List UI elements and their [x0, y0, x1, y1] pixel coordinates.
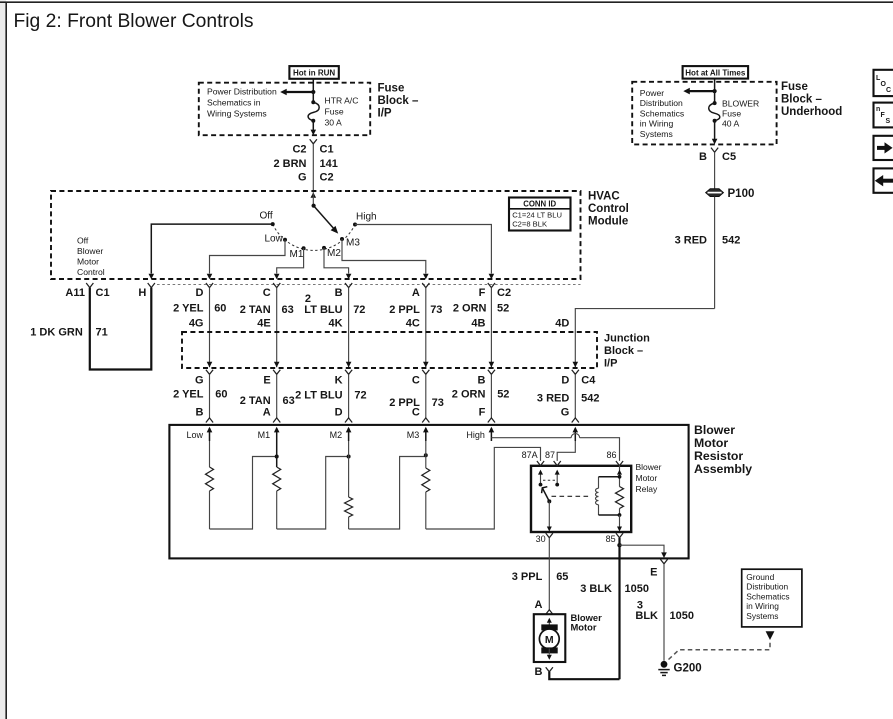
- wire 2 YEL circuit 60 (upper): [209, 288, 211, 368]
- svg-text:M3: M3: [407, 430, 420, 440]
- label 3 PPL 65: [512, 571, 569, 583]
- svg-text:C: C: [263, 287, 271, 299]
- svg-text:2 LT BLU: 2 LT BLU: [295, 390, 343, 402]
- svg-text:A: A: [412, 287, 420, 299]
- wire from module border to switch pivot: [312, 192, 314, 206]
- blower motor box: [534, 614, 566, 662]
- svg-text:3 PPL: 3 PPL: [512, 571, 543, 583]
- svg-text:I/P: I/P: [378, 108, 392, 120]
- svg-text:72: 72: [353, 304, 365, 316]
- svg-text:Hot in RUN: Hot in RUN: [293, 68, 335, 77]
- label BLOWER Fuse 40 A: [722, 98, 759, 128]
- svg-text:65: 65: [556, 571, 568, 583]
- svg-text:C: C: [412, 407, 420, 419]
- svg-text:Fuse: Fuse: [722, 109, 741, 119]
- svg-text:C5: C5: [722, 151, 736, 163]
- svg-text:Relay: Relay: [636, 484, 658, 494]
- wire 2 YEL circuit 60 (lower): [209, 374, 211, 418]
- svg-text:2 ORN: 2 ORN: [452, 389, 486, 401]
- pin F connector C2: [479, 283, 511, 299]
- wire from motor B to 85 wire: [549, 672, 619, 679]
- junction block I/P dashed box: [182, 332, 597, 368]
- pin G below junction block: [195, 370, 213, 387]
- svg-text:Ground: Ground: [746, 572, 774, 582]
- node: switch pivot: [312, 204, 316, 208]
- svg-text:P100: P100: [728, 188, 755, 200]
- label Hot at All Times: [683, 66, 749, 79]
- svg-text:Low: Low: [265, 234, 284, 245]
- svg-text:Block –: Block –: [378, 95, 420, 107]
- relay contact link (dashed): [543, 479, 555, 481]
- svg-text:C1: C1: [320, 143, 334, 155]
- wire 3 PPL circuit 65 from relay 30 to blower motor A: [548, 538, 550, 610]
- relay coil shunt resistor: [616, 466, 624, 515]
- relay pin 85: [606, 533, 623, 544]
- label 3 RED 542 (upper): [675, 234, 741, 246]
- relay coil L1: [596, 477, 620, 515]
- pin F at resistor assembly: [479, 407, 495, 423]
- label 3 BLK 1050 (right): [635, 600, 694, 622]
- svg-text:A: A: [535, 599, 543, 611]
- svg-text:C: C: [886, 87, 891, 94]
- label 4E: [257, 318, 270, 330]
- svg-text:Distribution: Distribution: [640, 98, 683, 108]
- blower motor resistor assembly box: [169, 425, 688, 559]
- node relay common 30: [547, 499, 551, 503]
- wire from Hot in RUN to fuse: [312, 79, 314, 92]
- wire 3 BLK circuit 1050 from pin E to ground G200: [663, 564, 665, 661]
- arrow relay coil 86 input: [617, 470, 622, 477]
- connector C2/C1: [292, 139, 333, 155]
- svg-text:Schematics: Schematics: [640, 108, 684, 118]
- pin D below junction block connector C4: [561, 370, 596, 387]
- svg-text:B: B: [196, 407, 204, 419]
- arrow TAN wire at junction block exit: [274, 362, 280, 368]
- label 3 RED 542 (lower): [537, 393, 600, 405]
- svg-text:C2: C2: [320, 172, 334, 184]
- fuse F1 HTR A/C 30 A: [308, 92, 319, 131]
- svg-text:Control: Control: [588, 203, 629, 215]
- svg-text:B: B: [477, 374, 485, 386]
- label 1 DK GRN 71: [30, 326, 108, 338]
- arrow relay contact 87A: [538, 470, 543, 485]
- wire: M1 chain to M2 node: [277, 457, 349, 530]
- svg-text:BLK: BLK: [635, 610, 658, 622]
- svg-text:2 ORN: 2 ORN: [453, 303, 487, 315]
- connector B/C5: [699, 148, 736, 163]
- svg-text:Motor: Motor: [694, 436, 728, 450]
- svg-text:Module: Module: [588, 215, 628, 227]
- arrow Low input inside assembly: [186, 427, 212, 441]
- svg-text:2 YEL: 2 YEL: [173, 389, 204, 401]
- label 2 TAN 63 (upper): [240, 304, 294, 316]
- relay pin 30: [536, 533, 553, 544]
- pin D at resistor assembly: [335, 407, 353, 423]
- node relay coil bottom (85): [618, 513, 622, 517]
- svg-text:K: K: [335, 374, 343, 386]
- label 2 LT BLU 72 (upper): [304, 293, 365, 316]
- button forward arrow: [874, 136, 893, 160]
- wire 2 PPL circuit 73 (upper): [425, 288, 427, 368]
- svg-text:73: 73: [430, 304, 442, 316]
- label 2 YEL 60 (upper): [173, 303, 226, 315]
- arrow M1 input inside assembly: [258, 427, 280, 441]
- title: Fig 2: Front Blower Controls: [14, 11, 254, 32]
- svg-text:C2=8 BLK: C2=8 BLK: [512, 220, 547, 229]
- label G200: [674, 663, 702, 675]
- svg-text:63: 63: [283, 395, 295, 407]
- svg-text:LT BLU: LT BLU: [304, 304, 342, 316]
- switch contact Low: [265, 234, 288, 245]
- switch contact arc (dashed): [273, 224, 355, 250]
- pin B at resistor assembly: [196, 407, 214, 423]
- svg-text:Low: Low: [186, 430, 203, 440]
- svg-text:Power Distribution: Power Distribution: [207, 87, 277, 97]
- svg-text:4K: 4K: [329, 318, 343, 330]
- fuse block underhood dashed box: [632, 82, 776, 145]
- svg-text:87: 87: [545, 450, 555, 460]
- svg-text:C1=24 LT BLU: C1=24 LT BLU: [512, 210, 562, 219]
- label Fuse Block - Underhood: [781, 81, 842, 118]
- node: blower fuse feed junction: [713, 89, 717, 93]
- grommet P100: [706, 189, 724, 197]
- wire: Low contact to pin D: [207, 240, 285, 279]
- svg-text:I/P: I/P: [604, 357, 617, 369]
- switch contact Off: [260, 211, 275, 227]
- svg-text:D: D: [196, 287, 204, 299]
- wire: M2 chain to M3 node: [349, 457, 426, 530]
- label 2 TAN 63 (lower): [240, 395, 295, 407]
- svg-text:Blower: Blower: [694, 423, 735, 437]
- svg-text:30: 30: [536, 534, 546, 544]
- wire 3 RED circuit 542 from P100 to junction block: [575, 197, 714, 368]
- wire 2 ORN circuit 52 (lower): [490, 374, 492, 418]
- svg-text:High: High: [466, 430, 485, 440]
- wire: Off contact to pin H: [149, 224, 273, 279]
- arrow: fuse output at box edge: [311, 130, 317, 136]
- svg-text:Assembly: Assembly: [694, 462, 752, 476]
- note Ground Distribution Schematics in Wiring Systems: [746, 572, 789, 621]
- label 2 ORN 52 (upper): [453, 303, 509, 315]
- arrow from ground distribution reference: [766, 631, 775, 640]
- arrow M2 input inside assembly: [330, 427, 352, 441]
- node M3 tap: [424, 453, 428, 457]
- svg-text:4B: 4B: [471, 318, 485, 330]
- svg-text:86: 86: [606, 450, 616, 460]
- label 4C: [406, 318, 420, 330]
- switch contact M3: [340, 237, 360, 249]
- svg-text:1 DK GRN: 1 DK GRN: [30, 326, 83, 338]
- relay pin 87A: [522, 450, 544, 466]
- svg-text:3 BLK: 3 BLK: [580, 583, 612, 595]
- wire: M1 contact to pin C: [274, 248, 304, 279]
- wire 3 BLK circuit 1050 from relay 85 (to motor B): [618, 538, 620, 680]
- node M2 tap: [347, 455, 351, 459]
- svg-text:Underhood: Underhood: [781, 106, 842, 118]
- svg-text:C1: C1: [96, 287, 110, 299]
- arrow relay contact 87: [555, 470, 560, 485]
- wire from Hot at All Times to fuse: [714, 79, 716, 92]
- svg-text:G: G: [195, 374, 204, 386]
- arrow into blower motor: [547, 618, 552, 627]
- pin B blower motor: [535, 666, 553, 678]
- label 2 PPL 73 (upper): [389, 304, 442, 316]
- pin C at resistor assembly: [412, 407, 430, 423]
- pin A at resistor assembly: [263, 407, 281, 423]
- svg-text:4E: 4E: [257, 318, 270, 330]
- arrow High input inside assembly: [466, 427, 494, 441]
- label Hot in RUN: [289, 66, 338, 79]
- wire: M3 contact to pin A: [342, 239, 429, 279]
- wire: M2 contact to pin B: [324, 248, 351, 279]
- blower motor M1 symbol: [539, 624, 559, 653]
- wire: low chain to M1 node: [210, 457, 277, 530]
- pin H: [138, 283, 155, 299]
- pin K below junction block: [335, 370, 353, 387]
- label HTR A/C Fuse 30 A: [325, 95, 359, 127]
- svg-text:M2: M2: [327, 248, 341, 259]
- pin E below junction block: [263, 370, 280, 387]
- svg-text:Blower: Blower: [636, 462, 662, 472]
- label Blower Motor Resistor Assembly: [694, 423, 752, 476]
- svg-text:Motor: Motor: [636, 473, 658, 483]
- switch contact M2: [322, 246, 341, 259]
- svg-text:52: 52: [497, 303, 509, 315]
- svg-text:B: B: [699, 151, 707, 163]
- arrow RED wire at junction block exit: [573, 362, 579, 368]
- svg-text:Hot at All Times: Hot at All Times: [685, 68, 746, 77]
- pin D: [196, 283, 214, 299]
- svg-text:73: 73: [432, 397, 444, 409]
- svg-text:52: 52: [497, 389, 509, 401]
- svg-text:Control: Control: [77, 267, 105, 277]
- wire 1 DK GRN circuit 71 loop from A11 to H: [90, 288, 152, 370]
- svg-text:HTR A/C: HTR A/C: [325, 95, 359, 105]
- svg-text:Schematics: Schematics: [746, 591, 789, 601]
- blower motor relay box: [531, 466, 631, 532]
- note Off Blower Motor Control: [77, 236, 105, 278]
- svg-text:A: A: [263, 407, 271, 419]
- svg-text:CONN ID: CONN ID: [523, 200, 556, 209]
- relay actuation link (dashed): [552, 495, 592, 497]
- svg-text:Fig 2: Front Blower Controls: Fig 2: Front Blower Controls: [14, 11, 254, 32]
- pin G of connector C2: [298, 172, 334, 184]
- svg-text:G: G: [561, 407, 570, 419]
- wire 3 RED circuit 542 (lower): [574, 374, 576, 418]
- svg-text:B: B: [535, 666, 543, 678]
- note Power Distribution Schematics in Wiring Systems (I/P): [207, 87, 277, 119]
- svg-text:30 A: 30 A: [325, 117, 342, 127]
- wire: G input to relay 87: [557, 441, 575, 461]
- svg-text:Resistor: Resistor: [694, 449, 743, 463]
- svg-text:F: F: [479, 287, 486, 299]
- wire 2 LT BLU circuit 72 (lower): [348, 374, 350, 418]
- svg-text:Off: Off: [260, 211, 273, 222]
- relay pin 87: [545, 450, 561, 466]
- svg-text:Block –: Block –: [781, 94, 823, 106]
- svg-text:Power: Power: [640, 88, 664, 98]
- svg-text:High: High: [356, 212, 377, 223]
- arrow PPL wire at junction block exit: [423, 362, 429, 368]
- fuse block I/P dashed box: [199, 83, 370, 136]
- wire: M3 chain to relay 87A: [426, 447, 541, 529]
- svg-text:Block –: Block –: [604, 345, 643, 357]
- ground distribution reference box: [742, 569, 802, 627]
- ground G200 symbol: [658, 661, 669, 676]
- wire 2 PPL circuit 73 (lower): [425, 374, 427, 418]
- arrow out of blower motor: [547, 649, 552, 660]
- svg-text:Systems: Systems: [746, 611, 778, 621]
- svg-text:2 PPL: 2 PPL: [389, 304, 420, 316]
- svg-text:M: M: [545, 634, 554, 646]
- button LOC (cut off): [874, 70, 893, 96]
- switch contact M1: [290, 246, 306, 260]
- relay armature: [542, 487, 550, 502]
- wire branch to pin E: [620, 545, 667, 558]
- CONN ID table: [509, 198, 571, 231]
- label 4G: [189, 318, 204, 330]
- resistor R-low: [206, 441, 214, 529]
- resistor R-m2: [345, 441, 353, 529]
- svg-text:Fuse: Fuse: [781, 81, 808, 93]
- node: 85 wire junction to pin E: [617, 543, 621, 547]
- svg-text:2 YEL: 2 YEL: [173, 303, 204, 315]
- svg-text:4D: 4D: [555, 318, 569, 330]
- note Power Distribution Schematics in Wiring Systems (underhood): [640, 88, 684, 139]
- svg-text:Blower: Blower: [77, 246, 103, 256]
- label 2 PPL 73 (lower): [389, 397, 444, 409]
- fuse F2 BLOWER 40 A: [709, 91, 720, 140]
- svg-text:4C: 4C: [406, 318, 420, 330]
- arrow to power distribution schematics: [280, 89, 313, 96]
- svg-text:85: 85: [606, 534, 616, 544]
- node relay contact 87A: [539, 483, 543, 487]
- svg-text:63: 63: [282, 304, 294, 316]
- svg-text:60: 60: [215, 389, 227, 401]
- svg-text:Motor: Motor: [571, 622, 597, 633]
- label Fuse Block - I/P: [378, 83, 420, 120]
- svg-text:3 RED: 3 RED: [675, 234, 707, 246]
- pin C: [263, 283, 281, 299]
- svg-text:71: 71: [96, 326, 108, 338]
- HVAC control module dashed box: [51, 191, 581, 279]
- arrow relay 85 output: [617, 515, 622, 532]
- label 4D: [555, 318, 569, 330]
- svg-text:4G: 4G: [189, 318, 204, 330]
- node relay contact 87: [555, 483, 559, 487]
- svg-text:BLOWER: BLOWER: [722, 98, 759, 108]
- arrow LTBLU wire at junction block exit: [346, 362, 352, 368]
- pin B: [335, 283, 353, 299]
- resistor R-m3: [422, 441, 430, 529]
- wire 2 ORN circuit 52 (upper): [490, 288, 492, 368]
- node: fuse feed junction: [311, 90, 315, 94]
- svg-text:2 TAN: 2 TAN: [240, 304, 271, 316]
- svg-text:1050: 1050: [670, 610, 694, 622]
- node M1 tap: [275, 455, 279, 459]
- resistor R-m1: [273, 441, 281, 529]
- relay pin 86: [606, 450, 623, 466]
- label 2 ORN 52 (lower): [452, 389, 510, 401]
- arrow entering HVAC module: [311, 192, 317, 198]
- wire: High contact to pin F: [355, 225, 494, 280]
- svg-text:40 A: 40 A: [722, 119, 739, 129]
- arrow to power distribution schematics (underhood): [683, 88, 714, 95]
- arrow ORN wire at junction block exit: [489, 362, 495, 368]
- pin E at resistor assembly bottom: [650, 559, 667, 579]
- switch S1 wiper arm: [314, 206, 339, 234]
- svg-text:Systems: Systems: [640, 129, 673, 139]
- svg-text:HVAC: HVAC: [588, 190, 620, 202]
- svg-text:M1: M1: [290, 249, 304, 260]
- pin G at resistor assembly: [561, 407, 579, 423]
- svg-text:2: 2: [305, 293, 311, 305]
- arrow YEL wire at junction block exit: [207, 362, 213, 368]
- pin B below junction block: [477, 370, 495, 387]
- arrow G input inside assembly: [573, 427, 579, 441]
- svg-text:C2: C2: [497, 287, 511, 299]
- svg-text:M1: M1: [258, 430, 271, 440]
- svg-text:in Wiring: in Wiring: [746, 601, 779, 611]
- label HVAC Control Module: [588, 190, 629, 227]
- label 4B: [471, 318, 485, 330]
- svg-text:D: D: [561, 374, 569, 386]
- wire 2 BRN from connector to HVAC module: [312, 144, 314, 191]
- svg-text:S: S: [886, 118, 891, 125]
- wire 2 TAN circuit 63 (lower): [276, 374, 278, 418]
- svg-text:E: E: [650, 567, 657, 579]
- svg-text:A11: A11: [65, 287, 85, 299]
- svg-text:D: D: [335, 407, 343, 419]
- svg-text:Junction: Junction: [604, 332, 650, 344]
- label P100: [728, 188, 755, 200]
- svg-text:H: H: [138, 287, 146, 299]
- svg-text:F: F: [479, 407, 486, 419]
- svg-text:M3: M3: [346, 238, 360, 249]
- svg-text:C2: C2: [292, 143, 306, 155]
- pin C below junction block: [412, 370, 430, 387]
- svg-text:542: 542: [581, 393, 599, 405]
- node relay coil top (86): [618, 475, 622, 479]
- svg-text:2 BRN: 2 BRN: [273, 158, 306, 170]
- svg-text:542: 542: [722, 234, 740, 246]
- label 2 YEL 60 (lower): [173, 389, 227, 401]
- svg-text:1050: 1050: [625, 583, 649, 595]
- button nFS (cut off): [874, 103, 893, 128]
- svg-text:Fuse: Fuse: [378, 83, 405, 95]
- arrow: blower fuse output at box edge: [712, 139, 718, 145]
- label Junction Block - I/P: [604, 332, 650, 369]
- pin A blower motor: [535, 599, 553, 614]
- dashed wire: G200 to ground distribution reference: [669, 640, 771, 660]
- svg-text:87A: 87A: [522, 450, 538, 460]
- svg-text:72: 72: [354, 390, 366, 402]
- svg-text:in Wiring: in Wiring: [640, 119, 674, 129]
- arrow M3 input inside assembly: [407, 427, 429, 441]
- svg-text:Fuse: Fuse: [325, 106, 344, 116]
- svg-text:E: E: [263, 374, 270, 386]
- label 4K: [329, 318, 343, 330]
- label 2 LT BLU 72 (lower): [295, 390, 367, 402]
- connector face line (thin dashed): [157, 284, 581, 286]
- svg-text:G200: G200: [674, 663, 702, 675]
- arrow relay 30 output: [547, 501, 552, 531]
- svg-text:Motor: Motor: [77, 257, 99, 267]
- svg-text:Off: Off: [77, 236, 89, 246]
- svg-text:G: G: [298, 172, 307, 184]
- svg-text:2 TAN: 2 TAN: [240, 395, 271, 407]
- wire: High input to relay 86 (hops over G wire): [491, 434, 619, 461]
